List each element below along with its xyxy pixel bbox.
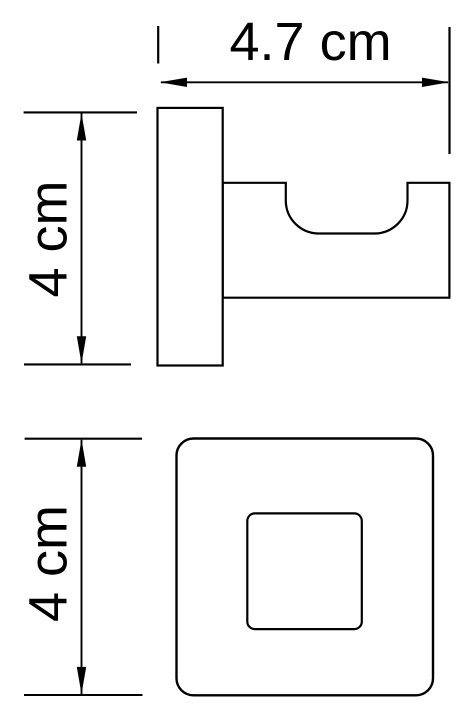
extension line top (left 4 cm dimension, side view) bbox=[24, 111, 137, 113]
hook arm outline (front view) bbox=[247, 513, 361, 629]
mount plate outline (front view) bbox=[177, 439, 434, 696]
dimension line 4.7 cm bbox=[161, 81, 448, 83]
arrowhead right (4.7 cm) bbox=[422, 78, 449, 87]
extension tick left (4.7 cm dimension) bbox=[157, 26, 159, 64]
dimension line 4 cm (side view) bbox=[81, 114, 83, 364]
arrowhead down (front view 4 cm) bbox=[77, 667, 86, 694]
extension line top (front view 4 cm dimension) bbox=[25, 438, 142, 440]
svg-text:4.7 cm: 4.7 cm bbox=[230, 12, 392, 72]
svg-text:4 cm: 4 cm bbox=[19, 505, 79, 622]
hook arm (side view) bbox=[223, 183, 450, 298]
arrowhead up (side view 4 cm) bbox=[77, 113, 86, 140]
wall plate (side view) bbox=[158, 108, 223, 366]
arrowhead up (front view 4 cm) bbox=[77, 440, 86, 467]
extension line right (4.7 cm dimension) bbox=[448, 27, 450, 154]
arrowhead down (side view 4 cm) bbox=[77, 336, 86, 363]
arrowhead left (4.7 cm) bbox=[160, 78, 187, 87]
svg-text:4 cm: 4 cm bbox=[19, 180, 79, 297]
dimension line 4 cm (front view) bbox=[81, 440, 83, 694]
extension line bottom (left 4 cm dimension, side view) bbox=[24, 363, 131, 365]
extension line bottom (front view 4 cm dimension) bbox=[24, 694, 143, 696]
